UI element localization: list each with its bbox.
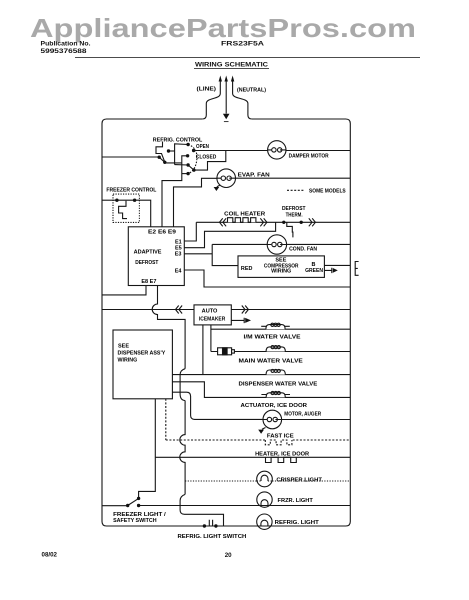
wire damper rail	[194, 150, 351, 152]
coil heater element	[228, 218, 256, 223]
freezer light safety switch blade	[128, 498, 139, 505]
ice door heater element	[266, 457, 297, 462]
wire lower contact tick	[182, 173, 188, 175]
svg-text:DEFROST: DEFROST	[135, 260, 159, 266]
main bus lower with hops	[180, 401, 185, 495]
svg-text:E2 E6 E9: E2 E6 E9	[148, 230, 176, 236]
wire open branch to damper rail	[194, 151, 226, 171]
evap fan ground triangle	[214, 187, 220, 191]
svg-text:MAIN WATER VALVE: MAIN WATER VALVE	[239, 358, 304, 364]
green connector arrow	[333, 268, 338, 273]
wire coil heater rail	[196, 221, 350, 223]
auger ground lead	[262, 428, 266, 430]
svg-text:ICEMAKER: ICEMAKER	[199, 317, 225, 323]
wire E5	[184, 222, 275, 247]
svg-text:E8 E7: E8 E7	[141, 279, 156, 285]
crisper light lamp	[257, 471, 273, 487]
evap fan ground lead	[217, 185, 220, 187]
svg-text:OPEN: OPEN	[196, 144, 209, 150]
wire heater ice door rail	[155, 456, 350, 458]
connector chevrons coil heater left	[220, 218, 227, 226]
wire refrig control feed from left edge	[102, 156, 158, 158]
svg-text:REFRIG. LIGHT SWITCH: REFRIG. LIGHT SWITCH	[178, 534, 247, 540]
wire B output	[324, 264, 350, 266]
svg-text:DEFROST: DEFROST	[282, 206, 306, 212]
svg-text:FAST ICE: FAST ICE	[267, 434, 294, 440]
wire cond fan top feed	[275, 231, 277, 235]
svg-text:FRS23F5A: FRS23F5A	[221, 41, 265, 48]
svg-text:GREEN: GREEN	[305, 268, 323, 274]
svg-text:AUTO: AUTO	[202, 309, 218, 315]
connector chevrons icemaker right	[242, 306, 249, 314]
terminal dots	[115, 143, 338, 528]
plug arrow middle	[225, 76, 228, 82]
svg-text:08/02: 08/02	[42, 551, 58, 558]
main bus frzr jog	[180, 494, 223, 526]
schematic labels	[106, 138, 346, 541]
header rule	[75, 56, 420, 58]
svg-text:5995376588: 5995376588	[41, 48, 88, 55]
main valve coil	[266, 347, 285, 352]
connector chevrons after defrost therm	[309, 218, 316, 226]
wire from blade contact	[165, 162, 182, 164]
svg-text:(LINE): (LINE)	[197, 87, 217, 93]
damper motor M1	[268, 141, 286, 159]
svg-text:ACTUATOR, ICE DOOR: ACTUATOR, ICE DOOR	[241, 403, 308, 409]
wire evap fan to right edge	[236, 177, 351, 179]
wire icemaker bottom to valves	[210, 325, 212, 352]
icemaker connector arrow	[245, 318, 251, 323]
wire cond fan rail	[212, 243, 350, 245]
plug arrow neutral	[231, 76, 234, 82]
svg-text:COND. FAN: COND. FAN	[289, 246, 317, 252]
svg-text:EVAP. FAN: EVAP. FAN	[238, 173, 270, 179]
power plug ground prong wire	[225, 81, 227, 114]
freezer control sensor element	[119, 201, 127, 219]
svg-text:REFRIG. CONTROL: REFRIG. CONTROL	[153, 138, 203, 144]
ground triangle under plug	[223, 114, 230, 119]
main schematic enclosure box	[102, 119, 350, 526]
compressor wiring box	[238, 256, 324, 278]
svg-text:COIL HEATER: COIL HEATER	[224, 212, 265, 218]
wire auger stub	[172, 392, 263, 419]
svg-text:AppliancePartsPros.com: AppliancePartsPros.com	[30, 13, 416, 43]
svg-text:E4: E4	[175, 268, 183, 274]
cond fan motor	[267, 235, 286, 254]
some models dashed pointer	[287, 189, 305, 191]
wire I/M water valve rail	[211, 328, 350, 330]
wire freezer control to E2	[135, 200, 151, 227]
wire E9 to evap fan	[174, 178, 217, 227]
svg-text:CRISPER LIGHT: CRISPER LIGHT	[276, 477, 322, 483]
fast ice dashed drop	[165, 399, 167, 440]
connector bracket right	[355, 262, 358, 276]
wire freezer control feed	[102, 199, 117, 201]
actuator coil	[266, 393, 285, 398]
wire E1 to coil heater rail	[184, 222, 196, 241]
svg-text:FREEZER CONTROL: FREEZER CONTROL	[106, 188, 157, 194]
chevron connectors	[176, 218, 316, 313]
svg-text:E3: E3	[175, 252, 182, 258]
main valve inline connector	[218, 348, 232, 355]
green ground lead	[324, 268, 331, 273]
refrig light switch prongs	[209, 520, 212, 526]
svg-text:WIRING: WIRING	[271, 269, 291, 275]
svg-text:DISPENSER WATER VALVE: DISPENSER WATER VALVE	[239, 382, 318, 388]
refrig control switch bottom edge	[175, 164, 189, 166]
svg-text:FRZR. LIGHT: FRZR. LIGHT	[278, 498, 314, 504]
power plug line prong	[202, 81, 220, 119]
svg-text:SAFETY SWITCH: SAFETY SWITCH	[113, 518, 157, 524]
power plug neutral prong	[233, 81, 252, 119]
svg-text:(NEUTRAL): (NEUTRAL)	[237, 88, 266, 94]
plug arrow line	[219, 76, 222, 82]
svg-text:20: 20	[225, 552, 232, 559]
wire actuator stub	[172, 382, 350, 398]
wire closed contact to E6 bus	[162, 156, 188, 227]
fast ice heater dashed	[265, 440, 292, 445]
refrig lamp	[257, 514, 272, 529]
wire dispenser box bottom drop	[139, 399, 156, 499]
connector chevrons icemaker left	[176, 306, 183, 314]
wire E4 rail	[184, 270, 350, 287]
svg-text:HEATER, ICE DOOR: HEATER, ICE DOOR	[255, 452, 309, 458]
wire dispenser valve rail	[172, 374, 350, 376]
wire E8 return to left edge	[102, 286, 146, 295]
icemaker ground lead	[231, 318, 244, 323]
refrig control blade	[160, 158, 165, 163]
wire frzr rail	[139, 505, 351, 507]
refrig control wiper arc dashed	[188, 145, 197, 174]
auto icemaker box	[194, 305, 231, 325]
defrost therm element	[287, 222, 293, 237]
svg-text:THERM.: THERM.	[286, 213, 303, 219]
refrig control blade lower	[188, 165, 194, 170]
auger motor	[263, 410, 282, 429]
wire safety switch feed	[102, 505, 128, 507]
svg-text:Publication No.: Publication No.	[41, 41, 91, 48]
svg-text:ADAPTIVE: ADAPTIVE	[134, 249, 162, 255]
connector chevrons coil heater right	[260, 218, 267, 226]
freezer control box dashed	[113, 194, 139, 222]
crisper dotted rail	[185, 480, 350, 482]
svg-text:CLOSED: CLOSED	[196, 155, 217, 161]
fast ice dashed rail	[166, 439, 350, 441]
adaptive defrost module box	[128, 227, 184, 286]
svg-text:RED: RED	[241, 266, 253, 272]
wire E3 junction to compressor	[212, 244, 238, 265]
wire icemaker bottom left bus	[202, 325, 204, 375]
wire auger to right edge	[282, 419, 351, 421]
wire main water valve rail	[211, 351, 350, 353]
wire E3	[184, 253, 212, 255]
dispenser valve coil	[266, 370, 285, 375]
svg-text:DISPENSER ASS'Y: DISPENSER ASS'Y	[118, 350, 166, 356]
wire icemaker rail	[102, 309, 350, 311]
svg-text:I/M WATER VALVE: I/M WATER VALVE	[244, 334, 301, 340]
I/M valve coil	[266, 325, 285, 330]
refrig control terminal stub	[169, 150, 175, 152]
svg-text:MOTOR, AUGER: MOTOR, AUGER	[284, 412, 321, 418]
svg-text:WIRING SCHEMATIC: WIRING SCHEMATIC	[195, 62, 268, 69]
dispenser assy box	[113, 330, 172, 399]
auger ground triangle	[258, 430, 264, 434]
svg-text:SOME MODELS: SOME MODELS	[309, 189, 346, 195]
svg-text:SEE: SEE	[118, 343, 129, 349]
svg-text:WIRING: WIRING	[118, 357, 138, 363]
refrig control common bracket	[156, 142, 165, 162]
frzr light lamp	[257, 492, 272, 507]
evap fan motor	[217, 169, 236, 188]
svg-text:REFRIG. LIGHT: REFRIG. LIGHT	[275, 520, 320, 526]
wire freezer control contacts link	[117, 199, 135, 201]
main bus dispenser jog	[180, 369, 185, 401]
wire E7 down with hop	[152, 286, 185, 369]
svg-text:DAMPER MOTOR: DAMPER MOTOR	[289, 153, 329, 159]
refrig control switch body D	[175, 144, 189, 165]
